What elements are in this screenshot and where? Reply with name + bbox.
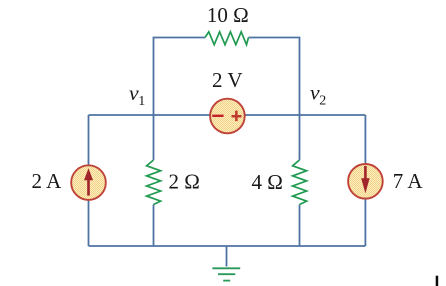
wire: 4-ohm branch upper segment bbox=[299, 115, 301, 160]
svg-text:2 Ω: 2 Ω bbox=[169, 170, 200, 194]
label 7 A value bbox=[393, 169, 424, 193]
current source I2 7A (circle with down arrow) bbox=[348, 164, 383, 199]
ground symbol bbox=[212, 268, 240, 280]
wire: 2-ohm branch lower segment bbox=[153, 205, 155, 247]
wire: left vertical branch (2 A source branch) bbox=[88, 115, 90, 246]
svg-text:4 Ω: 4 Ω bbox=[252, 170, 283, 194]
svg-text:10 Ω: 10 Ω bbox=[207, 3, 249, 27]
svg-text:7 A: 7 A bbox=[393, 169, 424, 193]
label 4 Ohm value bbox=[252, 170, 283, 194]
label 2 V value bbox=[212, 68, 243, 92]
label 2 A value bbox=[32, 169, 63, 193]
wire: right vertical branch (7 A source branch) bbox=[364, 115, 366, 246]
node v2 label bbox=[310, 83, 326, 109]
svg-text:2: 2 bbox=[319, 93, 326, 108]
voltage source V1 2V (circle with minus plus) bbox=[210, 99, 245, 134]
resistor R1 10 Ohm (top horizontal zigzag) bbox=[205, 32, 249, 45]
svg-text:2 A: 2 A bbox=[32, 169, 63, 193]
resistor R2 2 Ohm (vertical zigzag) bbox=[147, 160, 161, 205]
wire: 4-ohm branch lower segment bbox=[299, 205, 301, 247]
label 10 Ohm value bbox=[207, 3, 249, 27]
wire: middle horizontal (node v1 - node v2 rail) bbox=[89, 114, 366, 116]
wire: top loop right segment (10-ohm across and down to node v2) bbox=[249, 38, 300, 116]
svg-text:1: 1 bbox=[138, 94, 145, 109]
node v1 label bbox=[129, 83, 145, 109]
stray text cursor mark bottom right bbox=[436, 276, 439, 286]
current source I1 2A (circle with up arrow) bbox=[71, 165, 106, 200]
wire: top loop left segment (node v1 up and across to 10-ohm) bbox=[154, 38, 206, 116]
wire: 2-ohm branch upper segment bbox=[153, 115, 155, 160]
wire: ground stub bbox=[226, 246, 228, 267]
resistor R3 4 Ohm (vertical zigzag) bbox=[293, 160, 307, 205]
wire: bottom horizontal rail bbox=[89, 245, 366, 247]
label 2 Ohm value bbox=[169, 170, 200, 194]
svg-text:2 V: 2 V bbox=[212, 68, 243, 92]
